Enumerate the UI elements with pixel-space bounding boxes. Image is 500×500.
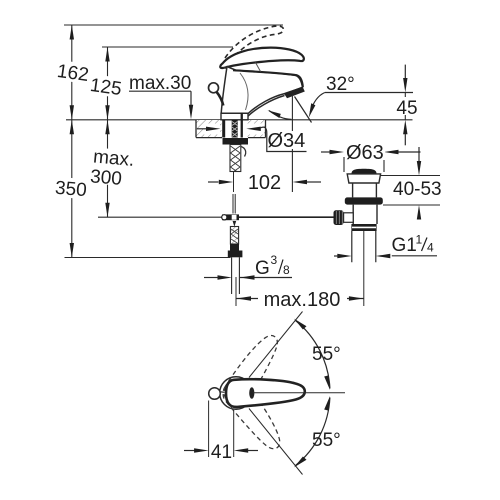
label Ø63 — [345, 143, 385, 160]
svg-text:102: 102 — [248, 172, 281, 194]
top view: body circle — [220, 377, 253, 410]
drain neck — [353, 183, 377, 197]
joint lower tip — [233, 221, 237, 227]
dimension 41 — [208, 401, 210, 458]
dimension max.180 — [235, 277, 237, 306]
svg-text:40-53: 40-53 — [393, 179, 442, 200]
svg-text:350: 350 — [54, 178, 87, 202]
drain lower body — [353, 205, 377, 224]
pop-up joint — [222, 214, 239, 220]
threaded shank below deck — [230, 145, 241, 172]
extension line spout reach vertical — [291, 95, 293, 131]
svg-text:45: 45 — [396, 98, 417, 119]
lever handle side view — [220, 48, 304, 68]
svg-text:Ø63: Ø63 — [346, 142, 384, 164]
label 40-53 — [392, 179, 440, 197]
dimension Ø34 arrows — [203, 124, 220, 135]
shank tube right wall — [241, 113, 243, 138]
pull rod — [217, 92, 224, 106]
svg-text:3: 3 — [271, 253, 278, 267]
angle leg horizontal — [253, 392, 345, 394]
extension line 125 level — [102, 46, 233, 48]
svg-text:41: 41 — [211, 442, 232, 463]
svg-text:300: 300 — [89, 166, 122, 190]
extension line top (162 level) — [64, 24, 283, 26]
drain pop-up waste: cap — [352, 169, 377, 174]
leader Ø34 — [260, 127, 307, 151]
label 125 — [87, 74, 125, 101]
extension line pop-up rod level — [98, 216, 222, 218]
supply adapter threaded — [230, 227, 238, 245]
svg-text:max.180: max.180 — [264, 289, 341, 311]
svg-text:55°: 55° — [312, 430, 341, 451]
top view: dashed lever rotated up — [219, 330, 287, 410]
body interior curve — [240, 73, 248, 110]
svg-text:1: 1 — [416, 233, 423, 247]
svg-text:4: 4 — [427, 241, 434, 255]
drain tailpipe — [352, 231, 376, 262]
drain flange — [345, 197, 383, 204]
extension line deck top — [66, 119, 413, 121]
32 degree arc — [269, 111, 292, 120]
svg-text:G1: G1 — [392, 235, 417, 256]
top view: lever paddle — [226, 379, 305, 407]
spout shoulder thick edge — [233, 70, 303, 87]
dimension 45 — [404, 65, 406, 78]
arc upper 55 — [296, 321, 330, 389]
spout underside curve — [247, 96, 284, 117]
svg-text:162: 162 — [56, 61, 90, 86]
label max.300 — [89, 146, 135, 191]
drain knob stem — [344, 213, 354, 223]
32 degree stream line — [295, 97, 312, 123]
svg-text:Ø34: Ø34 — [268, 130, 306, 152]
dimension 125 line — [107, 47, 109, 217]
threaded rod in deck — [232, 120, 238, 138]
pull rod knob — [209, 83, 219, 93]
faucet centerline lower — [233, 172, 235, 193]
supply pipe — [232, 257, 240, 294]
drain centerline — [363, 231, 365, 306]
drain side knob — [334, 210, 344, 225]
svg-text:32°: 32° — [326, 74, 355, 95]
supply nut — [230, 244, 239, 251]
faucet base plate — [221, 113, 248, 120]
svg-text:G: G — [255, 258, 270, 279]
label 41 — [210, 441, 233, 460]
label max.180 — [258, 289, 347, 308]
svg-text:8: 8 — [283, 263, 290, 277]
svg-text:55°: 55° — [312, 344, 341, 365]
faucet body and spout — [221, 67, 302, 114]
top view: dashed lever rotated down — [219, 376, 287, 456]
lever front hook detail — [224, 68, 232, 71]
aerator at spout tip — [284, 87, 305, 99]
32 degree leader — [310, 93, 325, 113]
pop-up rod horizontal — [239, 216, 334, 218]
pull rod vertical — [233, 194, 235, 214]
hose clip hook — [241, 147, 246, 157]
underline 32 and extension 45 top — [325, 92, 413, 94]
angle leg upper — [249, 312, 303, 378]
label 45 — [393, 97, 421, 115]
label 350 — [53, 177, 90, 202]
dashed lever raised position — [225, 26, 283, 62]
shank tube left wall — [222, 120, 225, 138]
dimension 40-53 — [381, 175, 440, 177]
label Ø34 — [268, 128, 307, 149]
cartridge neck edge — [256, 63, 261, 72]
dimension Ø63 — [321, 151, 331, 153]
locknut — [223, 138, 249, 145]
top view: pull rod knob — [209, 388, 221, 400]
svg-text:125: 125 — [89, 75, 123, 100]
drain end band — [351, 224, 376, 231]
angle leg lower — [249, 409, 303, 475]
countertop deck hatched section — [196, 120, 222, 138]
drain rim — [347, 174, 380, 183]
arc lower 55 — [296, 398, 330, 466]
extension line supply end level — [65, 257, 231, 259]
dimension 102 — [208, 181, 219, 183]
dimension 162 line — [72, 24, 258, 26]
label 162 — [55, 60, 93, 87]
top view: lever slot detail — [249, 387, 254, 399]
